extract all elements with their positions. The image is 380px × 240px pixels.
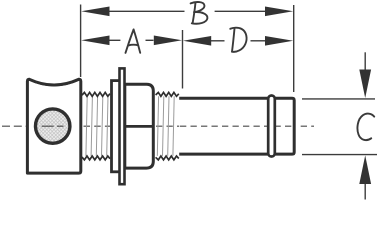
- C ext bottom: [302, 154, 377, 156]
- threads1 top zigzag: [82, 92, 110, 96]
- ext line B-D right: [293, 5, 295, 92]
- dim A line: [108, 39, 120, 41]
- threads2 flank lines: [157, 96, 174, 156]
- nut facet line: [126, 125, 153, 128]
- C arrow bottom: [359, 155, 371, 184]
- centerline through body: [180, 125, 314, 127]
- dim A right arrow: [154, 36, 182, 46]
- dim D line: [211, 40, 225, 42]
- dim B left arrow: [81, 7, 109, 17]
- barb ridge: [268, 96, 275, 157]
- nut: [125, 84, 154, 168]
- label A: [126, 30, 141, 53]
- threads2 top zigzag: [156, 92, 179, 96]
- threads2 bottom zigzag: [156, 156, 179, 160]
- dim B right arrow: [265, 7, 293, 17]
- label C: [357, 114, 374, 140]
- ext line A-B left: [80, 5, 82, 78]
- centerline: [2, 125, 27, 127]
- C ext top: [302, 98, 375, 100]
- dim B line: [108, 10, 185, 12]
- dim A left arrow: [81, 36, 109, 46]
- ext line D left: [182, 30, 184, 89]
- threads1 flank lines: [86, 96, 108, 156]
- centerline threads2: [156, 125, 180, 127]
- body (pipe): [179, 98, 294, 154]
- label B: [191, 2, 208, 24]
- hatched circle: [36, 109, 70, 143]
- washer: [112, 81, 123, 172]
- panel bar: [120, 68, 125, 184]
- label D: [230, 28, 246, 52]
- dim D left arrow: [183, 36, 211, 46]
- C arrow top: [364, 52, 366, 70]
- dim D right arrow: [265, 36, 293, 46]
- threads1 bottom zigzag: [82, 156, 110, 160]
- centerline threads1: [84, 125, 111, 127]
- head: [27, 79, 80, 173]
- centerline through circle: [42, 125, 69, 127]
